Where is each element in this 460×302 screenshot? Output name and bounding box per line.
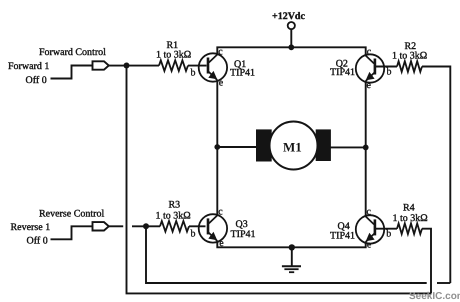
svg-text:c: c [367,207,372,218]
svg-text:Reverse 1: Reverse 1 [11,222,51,233]
svg-text:e: e [219,238,224,249]
svg-text:Forward Control: Forward Control [39,47,106,58]
svg-text:1 to 3kΩ: 1 to 3kΩ [392,51,427,62]
svg-text:1 to 3kΩ: 1 to 3kΩ [156,50,191,61]
svg-text:Off 0: Off 0 [26,75,47,86]
svg-text:e: e [219,78,224,89]
svg-text:+12Vdc: +12Vdc [272,11,305,22]
svg-text:Off 0: Off 0 [27,236,48,247]
svg-text:c: c [218,207,223,218]
svg-text:1 to 3kΩ: 1 to 3kΩ [393,213,428,224]
svg-text:TIP41: TIP41 [230,68,255,79]
svg-text:TIP41: TIP41 [231,229,256,240]
svg-text:e: e [367,240,372,251]
svg-text:c: c [367,47,372,58]
svg-text:e: e [367,80,372,91]
svg-text:R4: R4 [403,203,415,214]
svg-text:TIP41: TIP41 [330,67,355,78]
svg-text:TIP41: TIP41 [330,231,355,242]
svg-text:b: b [386,228,391,239]
svg-text:b: b [191,68,196,79]
svg-text:Reverse Control: Reverse Control [39,209,104,220]
svg-text:R3: R3 [169,200,181,211]
svg-text:M1: M1 [283,140,302,155]
svg-text:b: b [191,228,196,239]
svg-text:c: c [218,47,223,58]
svg-text:1 to 3kΩ: 1 to 3kΩ [156,211,191,222]
svg-text:SeekIC.com: SeekIC.com [409,291,460,302]
svg-text:b: b [387,67,392,78]
svg-text:Forward 1: Forward 1 [8,61,49,72]
